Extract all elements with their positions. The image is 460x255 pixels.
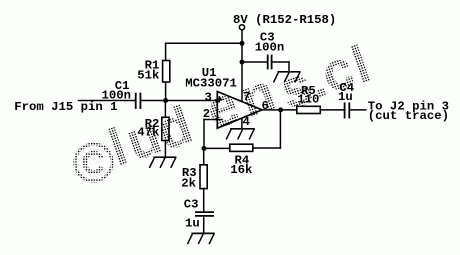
resistor R1 (163, 61, 170, 83)
junction output node (278, 107, 283, 112)
wire 8V vertical to pin 7 (241, 31, 243, 102)
wire input from J15 (79, 100, 135, 102)
op-amp minus input mark (217, 119, 222, 121)
svg-text:51k: 51k (137, 68, 160, 82)
ground bottom (188, 233, 214, 243)
wire feedback node to R4 (204, 147, 230, 149)
wire R1 bottom to input node (165, 82, 167, 101)
wire R2 bottom to ground (164, 141, 166, 158)
ground below C3 top (274, 72, 300, 82)
svg-text:16k: 16k (230, 163, 253, 177)
resistor R5 (297, 106, 321, 113)
wire rail corner down to R1 (165, 43, 167, 60)
svg-text:2k: 2k (181, 177, 196, 191)
wire feedback bottom right (253, 147, 281, 149)
op-amp U1 triangle (217, 92, 262, 129)
wire feedback node down to R3 (203, 148, 205, 164)
wire pin 4 to ground (241, 118, 243, 129)
capacitor C1 (136, 94, 141, 109)
wire pin 2 horizontal (204, 119, 217, 121)
svg-text:100n: 100n (255, 40, 285, 54)
watermark ludens.cl (101, 35, 377, 179)
wire C3 bottom to ground (203, 217, 205, 234)
op-amp plus input mark (217, 97, 222, 102)
resistor R4 (230, 144, 253, 151)
wire input node down to R2 (164, 101, 166, 118)
capacitor C4 (345, 103, 350, 117)
svg-text:1u: 1u (185, 217, 200, 231)
wire C4 to J2 (350, 109, 366, 111)
ground below R2 (150, 157, 176, 167)
svg-text:From J15 pin 1: From J15 pin 1 (14, 100, 117, 114)
ground below pin 4 (227, 129, 255, 139)
wire output from pin 6 (262, 109, 297, 111)
wire output node down (279, 110, 281, 148)
junction C3 branch node (240, 60, 245, 65)
svg-text:8V (R152-R158): 8V (R152-R158) (233, 13, 336, 27)
wire C3 to ground corner (273, 61, 290, 63)
resistor R2 (162, 117, 169, 140)
wire 8V rail to R1 (166, 42, 242, 44)
junction rail node (240, 41, 245, 46)
wire input node to pin 3 (166, 100, 218, 102)
junction feedback node (202, 146, 207, 151)
capacitor C3 top (268, 56, 272, 69)
resistor R3 (200, 165, 207, 189)
capacitor C3 bottom (196, 212, 213, 216)
svg-text:C3: C3 (184, 198, 199, 212)
wire R3 to C3 bottom (203, 189, 205, 212)
wire C3 branch (242, 61, 267, 63)
wire pin 2 down to feedback node (203, 120, 205, 149)
wire R5 to C4 (320, 109, 343, 111)
wire C1 to input node (141, 100, 165, 102)
power terminal 8V (239, 25, 244, 30)
junction input node (163, 98, 168, 103)
wire C3 ground drop (288, 62, 290, 72)
svg-text:(cut trace): (cut trace) (368, 109, 449, 123)
